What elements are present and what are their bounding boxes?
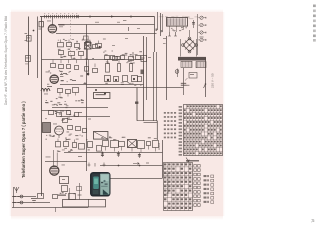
resistor group R1..R5 row1: [58, 43, 64, 47]
node dial lamp box: [27, 36, 32, 42]
heater taps: [168, 32, 177, 36]
wire dial pointer rail: [28, 17, 30, 76]
tube V1 (ECC85): [48, 25, 56, 33]
wire row y117: [60, 116, 110, 118]
IF strip resistor row top: [105, 56, 110, 60]
AF coupling cluster below V4: [60, 177, 69, 184]
IF strip bottom row: [105, 76, 111, 82]
transformer leads: [169, 26, 171, 32]
tube V4 (EL84): [50, 166, 59, 175]
resistor group row2: [59, 51, 64, 55]
wire badge row y178: [107, 178, 163, 180]
phono input jacks: [13, 197, 20, 203]
wire stub x157: [157, 12, 159, 30]
input filter boxes: [38, 194, 44, 199]
speaker wire tick: [55, 208, 57, 213]
capacitor C51: [189, 73, 197, 79]
wire top bus: [40, 16, 155, 18]
node antenna coil box: [39, 22, 43, 27]
wire left jack rail: [13, 187, 15, 208]
lamp rails: [197, 14, 199, 55]
bridge leads: [189, 30, 191, 37]
wire rectifier drop: [196, 62, 198, 69]
smoothing capacitor C50: [183, 68, 185, 95]
IF amp cluster row: [68, 126, 73, 130]
mains cord line: [205, 58, 207, 97]
table pointer arrow: [186, 158, 189, 162]
tube V2 (ECH81): [50, 75, 58, 83]
bandswitch block: [43, 123, 51, 133]
wire center rail: [86, 25, 88, 172]
output transformer winding R: [196, 62, 206, 68]
wire cathode row y84: [60, 84, 144, 86]
output box outline: [63, 200, 106, 207]
wire NF row y165: [100, 165, 163, 167]
svg-text:Das HF- und NF-Teil des Telefu: Das HF- und NF-Teil des Telefunken Super…: [4, 16, 8, 105]
wire right NF rail: [162, 140, 164, 178]
AGC network cluster: [49, 111, 54, 115]
node dial drive box: [26, 56, 31, 62]
terminal pair column: [194, 165, 197, 168]
valve data mini table: [164, 112, 166, 114]
mixer grid cluster: [51, 64, 56, 68]
svg-text:220 V ~ 50: 220 V ~ 50: [211, 73, 215, 88]
wire row divider y87: [87, 87, 184, 89]
oscillator coil L3: [41, 89, 50, 92]
wire bottom input row1: [12, 196, 36, 198]
table caption dash: [186, 160, 199, 162]
scanned pink paper area: [11, 12, 223, 216]
antenna symbol: [14, 187, 19, 193]
voltage table grid: [184, 105, 223, 156]
wire NF row y152: [64, 152, 163, 154]
node junction dots y165: [118, 165, 120, 167]
detector cluster row: [56, 142, 61, 147]
lamp rail ticks: [205, 17, 206, 19]
voltage selector bar: [178, 57, 206, 61]
wire output box feeds: [79, 183, 81, 200]
wire left rail B: [41, 17, 43, 197]
right margin header glyph column: [313, 5, 316, 8]
wire HT step corner: [137, 120, 157, 122]
capacitor C40: [193, 20, 195, 28]
wire AVC bus: [58, 24, 155, 26]
svg-text:Anod: Anod: [157, 143, 161, 150]
wire row divider y59: [42, 59, 144, 61]
symbols on NF row: [88, 163, 106, 167]
wire dashed screen rail: [70, 20, 72, 60]
wire HT rail (double) right: [146, 37, 148, 100]
colour badge (magic eye photo): [90, 172, 111, 197]
connection list block: [204, 175, 207, 177]
oscillator cluster: [58, 89, 63, 93]
bridge rectifier GR1: [183, 39, 196, 52]
capacitor C22: [118, 151, 120, 157]
wire bus drop right: [154, 17, 156, 53]
wire row y111 left: [42, 110, 71, 112]
node junction small boxes: [111, 56, 115, 60]
faint header note: [194, 15, 198, 18]
wire third bus: [56, 33, 157, 35]
tube V3 (EF89): [55, 126, 64, 135]
wire row y108: [52, 107, 108, 109]
capacitor C23: [139, 153, 141, 159]
wire right rail x166: [166, 36, 168, 100]
wire HT rail (double) left: [143, 36, 145, 121]
AF output cluster: [103, 141, 109, 147]
pilot lamp column: [200, 16, 203, 19]
dial scale ticks: [43, 15, 46, 18]
wire bottom long y207: [12, 207, 88, 209]
output transformer winding L: [181, 61, 192, 67]
svg-text:Telefunken Super Opus 7 ( part: Telefunken Super Opus 7 ( partie uno ): [21, 101, 26, 178]
mains switch: [177, 69, 179, 78]
ground symbol bottom: [31, 199, 37, 203]
capacitor C21: [102, 153, 104, 158]
IF transformer T2: [85, 43, 92, 50]
IF strip vertical resistors: [106, 64, 110, 73]
mains transformer T3: [167, 18, 188, 27]
wire stub x160: [160, 13, 162, 36]
coil table grid: [164, 163, 193, 211]
mini table label col: [179, 106, 182, 108]
wire left rail A: [37, 17, 39, 79]
wire bus arrow marks: [89, 15, 92, 18]
wire rail x138: [136, 88, 138, 121]
wire bottom input row2: [12, 202, 50, 204]
